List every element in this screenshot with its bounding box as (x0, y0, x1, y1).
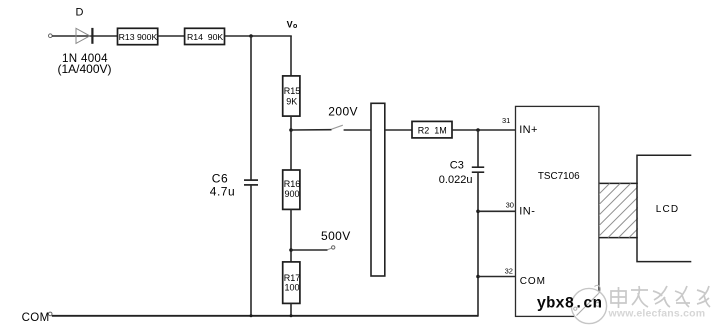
svg-text:100: 100 (285, 283, 300, 293)
resistor R14 (185, 28, 225, 44)
junction 200V tap (289, 128, 293, 132)
svg-text:IN-: IN- (519, 206, 535, 218)
resistor R16 (283, 170, 301, 209)
wire switch to selector bar (344, 129, 371, 131)
svg-text:30: 30 (506, 200, 514, 209)
svg-text:0.022u: 0.022u (439, 174, 473, 186)
svg-text:V: V (287, 20, 293, 30)
svg-text:R15: R15 (284, 86, 301, 96)
svg-text:4.7u: 4.7u (210, 185, 235, 199)
wire C3 top (477, 130, 479, 167)
switch blade 200V (332, 125, 343, 129)
wire C3 bottom to rail (477, 172, 479, 316)
bottom rail wire (52, 315, 478, 317)
junction rail R17 (290, 314, 293, 317)
node Vo label (287, 20, 298, 31)
resistor R15 (283, 76, 301, 116)
svg-text:R2 1M: R2 1M (418, 125, 447, 135)
wire C6 bottom to rail (250, 185, 252, 317)
wire 200V tap (291, 129, 332, 131)
resistor R13 (118, 28, 158, 44)
wire COM pin 32 (478, 276, 518, 278)
junction rail C6 (250, 314, 253, 317)
capacitor C3 (472, 167, 484, 172)
svg-text:COM: COM (22, 312, 50, 324)
LCD box (637, 155, 691, 261)
junction IN- (476, 210, 480, 214)
svg-text:R17: R17 (284, 273, 301, 283)
junction node C6 branch (249, 34, 253, 38)
wire R15 to R16 (290, 116, 292, 170)
wire (225, 35, 292, 37)
capacitor C6 (244, 180, 258, 185)
junction COM pin (476, 275, 480, 279)
svg-text:C6: C6 (212, 171, 228, 185)
junction C3 branch (476, 128, 480, 132)
terminal input (open circle) (49, 34, 53, 38)
selector bar (371, 103, 385, 276)
svg-text:R14 90K: R14 90K (187, 32, 223, 42)
svg-text:31: 31 (502, 116, 510, 125)
watermark chinese characters (faint) (611, 286, 710, 308)
resistor R2 (412, 121, 452, 137)
svg-text:TSC7106: TSC7106 (538, 171, 580, 182)
svg-text:R16: R16 (284, 179, 301, 189)
svg-text:COM: COM (520, 276, 546, 287)
resistor R17 (283, 262, 301, 304)
svg-text:900: 900 (285, 189, 300, 199)
svg-text:IN+: IN+ (519, 124, 538, 136)
diode D (76, 28, 92, 44)
svg-text:www.elecfans.com: www.elecfans.com (608, 308, 706, 320)
wire (158, 35, 185, 37)
wire 500V tap (291, 249, 328, 251)
switch contact 500V (open circle) (332, 246, 335, 249)
terminal COM (open circle) (48, 312, 52, 316)
op-amp IC U1 TSC7106 (516, 106, 599, 316)
svg-text:D: D (76, 7, 84, 19)
wire R2 to IC pin 31 (452, 129, 517, 131)
svg-text:R13 900K: R13 900K (119, 32, 158, 42)
wire IN- pin 30 (478, 210, 517, 212)
wire R16 to R17 (290, 209, 292, 262)
wire C6 branch top (250, 36, 252, 180)
svg-text:32: 32 (505, 267, 513, 276)
svg-text:C3: C3 (450, 160, 464, 172)
svg-text:9K: 9K (286, 96, 297, 106)
wire R17 to rail (290, 303, 292, 316)
watermark elecfans logo circle (571, 285, 606, 323)
wire top rail left (52, 35, 118, 37)
hatched connector IC to LCD (545, 183, 683, 237)
svg-text:ybx8.cn: ybx8.cn (537, 295, 602, 313)
svg-text:o: o (293, 23, 297, 30)
svg-text:200V: 200V (328, 104, 358, 118)
svg-text:LCD: LCD (656, 204, 680, 215)
svg-text:(1A/400V): (1A/400V) (58, 62, 112, 76)
switch blade 500V (328, 248, 332, 250)
svg-text:500V: 500V (321, 229, 351, 243)
wire vertical to R15 (290, 36, 292, 76)
wire bar to R2 (385, 129, 412, 131)
junction 500V tap (289, 248, 293, 252)
